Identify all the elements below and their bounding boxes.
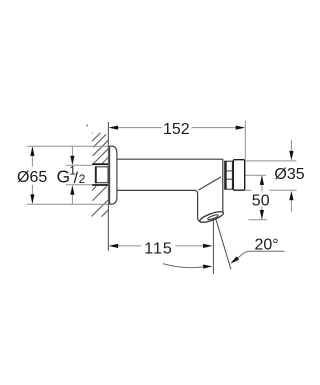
aerator slit: [207, 214, 218, 220]
outlet cap outer: [199, 210, 225, 225]
dimension 50: extension line top: [246, 174, 267, 176]
tube top line: [117, 158, 223, 160]
angle arc leader left: [163, 264, 204, 268]
dimension O65: arrow up: [30, 146, 34, 156]
dimension 115: arrow right: [203, 244, 213, 248]
svg-text:Ø65: Ø65: [17, 169, 47, 186]
collar divider 1: [227, 170, 233, 172]
angle leader right with underline: [234, 251, 284, 261]
dimension 152: arrow left: [109, 126, 119, 130]
spout crease diagonal: [198, 177, 221, 190]
dimension 115: arrow left: [109, 244, 119, 248]
tube bottom line with spout corner: [117, 190, 200, 221]
dimension G1/2: arrow bottom (outside): [71, 195, 73, 204]
knob (push button): [233, 160, 244, 191]
dimension O35: arrow bottom (outside): [290, 201, 292, 212]
dimension 152: extension line right: [244, 121, 246, 160]
escutcheon: [110, 146, 117, 204]
svg-text:G: G: [57, 167, 71, 187]
dimension O35: extension line bottom: [245, 189, 252, 191]
collar divider 2: [227, 178, 233, 180]
wall speck: [92, 133, 93, 134]
dimension O35: arrow top (outside): [290, 140, 292, 151]
dimension G1/2: extension lines: [66, 164, 93, 166]
tube end / spout right edge: [222, 159, 224, 212]
svg-text:2: 2: [79, 172, 86, 186]
dimension 152: dimension line: [114, 127, 162, 129]
dimension G1/2: arrow top (outside): [71, 147, 73, 156]
thread crest top: [92, 163, 108, 165]
collar grooves: [225, 161, 233, 189]
svg-text:50: 50: [252, 192, 270, 209]
dimension 50: arrow down: [260, 210, 264, 220]
angle slant line 20deg: [216, 219, 231, 269]
collar dark band: [225, 161, 227, 189]
angle slant arrow: [230, 256, 239, 263]
dimension 50: extension line bottom: [248, 219, 267, 221]
wall hatching: [86, 125, 108, 217]
svg-text:115: 115: [144, 240, 173, 257]
svg-text:152: 152: [163, 121, 190, 138]
dimension O65: dimension line: [31, 148, 33, 167]
angle arc arrow: [203, 265, 213, 269]
wall face line: [107, 122, 109, 251]
dimension O65: arrow down: [30, 194, 34, 204]
angle reference vertical line: [212, 221, 214, 274]
dimension O65: extension lines: [27, 145, 110, 147]
dimension 50: arrow up: [260, 175, 264, 185]
thread body box: [96, 167, 108, 183]
thread box thick left edge: [95, 166, 97, 183]
dimension 152: arrow right: [236, 126, 246, 130]
svg-text:Ø35: Ø35: [274, 166, 304, 183]
dimension 115: dimension line: [114, 245, 141, 247]
thread crest bottom: [92, 184, 108, 186]
dimension O35: extension line top: [245, 160, 296, 162]
svg-text:20°: 20°: [255, 236, 279, 253]
dimension 50: dimension line: [261, 176, 263, 191]
